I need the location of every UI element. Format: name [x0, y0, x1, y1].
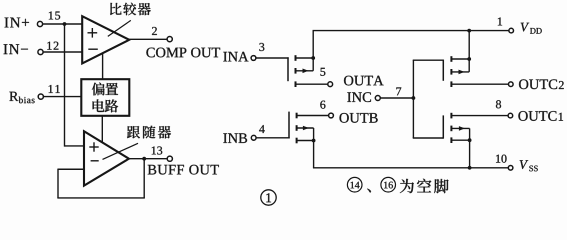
wire INC gate bottom branch	[413, 137, 444, 139]
wire INC gate top branch	[413, 59, 444, 61]
pointer line follower label	[103, 143, 139, 159]
wire INB to gate	[256, 137, 290, 139]
text Rbias label	[9, 92, 18, 101]
pin number 1	[498, 17, 502, 25]
wire Q1 drain to VDD rail	[312, 31, 314, 58]
comparator + input sign	[88, 32, 98, 34]
bias circuit box	[81, 79, 129, 116]
wire Q3 drain to VDD rail	[468, 31, 470, 59]
text OUTA label	[344, 76, 353, 86]
text COMP OUT	[146, 48, 154, 58]
pin number 2	[152, 27, 157, 35]
caption comma	[367, 189, 371, 193]
transistor Q1 gate bar	[287, 57, 289, 81]
pin number 8	[496, 100, 501, 108]
transistor Q1 channel ticks	[295, 55, 297, 61]
transistor Q1 bulk lead with arrow	[296, 70, 314, 72]
text IN+ label	[5, 18, 9, 28]
wire Q2 bulk-source tie	[313, 128, 315, 141]
pin number 10	[496, 155, 500, 163]
transistor Q2 bulk lead with arrow	[297, 127, 314, 129]
node Q1 drain junction	[311, 56, 315, 60]
pin 7 terminal circle INC	[375, 96, 380, 101]
pin 12 terminal circle IN-	[38, 49, 43, 54]
pin 9 terminal circle OUTC2	[509, 82, 514, 87]
label dianlu circuit	[93, 99, 105, 112]
pin 3 terminal circle INA	[251, 56, 256, 61]
text BUFF OUT	[148, 165, 157, 175]
wire Q1 drain-bulk tie	[312, 58, 314, 71]
transistor Q2 source lead	[297, 140, 314, 142]
pin 13 terminal circle	[167, 156, 172, 161]
wire VDD rail	[313, 30, 509, 32]
text INC label	[347, 92, 351, 101]
pin number 13	[152, 146, 156, 154]
wire IN- to comparator	[43, 51, 82, 53]
text INA label	[223, 52, 227, 61]
text OUTC1 label	[518, 111, 527, 121]
caption wei kong jiao empty pins	[400, 179, 414, 193]
wire VSS rail	[313, 167, 508, 169]
wire into follower + input	[65, 145, 85, 147]
pin 6 terminal circle OUTB	[329, 113, 334, 118]
wire feedback up	[57, 169, 59, 198]
transistor Q4 bulk lead with arrow	[451, 127, 469, 129]
transistor Q1 drain lead	[296, 57, 314, 59]
label gensuiqi follower	[127, 126, 140, 138]
pin number 7	[396, 87, 401, 95]
node follower output junction	[142, 157, 146, 161]
circled pin 16	[381, 177, 396, 192]
wire INC to gate bracket	[380, 97, 413, 99]
pin 11 terminal circle Rbias	[38, 94, 43, 99]
transistor Q3 drain lead	[451, 58, 469, 60]
text IN- label	[4, 44, 8, 54]
transistor Q3 source lead to OUTC2	[451, 83, 508, 85]
pin 10 terminal circle VSS	[508, 166, 513, 171]
node VSS rail junction	[468, 166, 472, 170]
wire Q4 bulk-source tie	[469, 128, 471, 140]
pin 1 terminal circle VDD	[509, 28, 514, 33]
pin number 4	[259, 125, 265, 133]
transistor Q4 gate bar	[442, 115, 444, 138]
wire Q3 drain-bulk tie	[468, 59, 470, 72]
node Q2 source junction	[312, 139, 316, 143]
text INB label	[223, 133, 227, 142]
transistor Q4 drain lead to OUTC1	[451, 115, 508, 117]
pin number 15	[49, 11, 53, 19]
label pianzhi bias	[92, 83, 105, 96]
transistor Q3 channel ticks	[450, 56, 452, 62]
circled pin 14	[347, 177, 362, 192]
transistor Q2 channel ticks	[296, 113, 298, 119]
text OUTB label	[339, 113, 348, 123]
transistor Q4 source lead	[451, 139, 469, 141]
pin 15 terminal circle IN+	[37, 21, 42, 26]
wire comparator output	[129, 38, 167, 40]
wire feedback down	[143, 159, 145, 198]
pin number 5	[320, 68, 325, 76]
wire Q4 source to VSS rail	[469, 140, 471, 168]
pin number 11	[49, 85, 53, 93]
transistor Q4 channel ticks	[450, 113, 452, 119]
pin number 6	[320, 101, 325, 109]
wire INC gate bracket vertical	[412, 60, 414, 138]
pin 4 terminal circle INB	[251, 135, 256, 140]
transistor Q1 source lead to OUTA	[296, 83, 328, 85]
transistor Q2 gate bar	[288, 112, 290, 139]
pin 2 terminal circle	[167, 37, 172, 42]
node Q3 drain junction	[467, 57, 471, 61]
text OUTC2 label	[519, 79, 528, 89]
text VSS label	[520, 160, 529, 169]
wire IN+ to comparator	[43, 23, 83, 25]
wire IN+ vertical drop	[64, 24, 66, 147]
text VDD label	[521, 23, 530, 32]
pin number 3	[259, 43, 264, 51]
wire comparator to bias box	[102, 53, 104, 79]
wire Rbias to bias box	[44, 96, 82, 98]
circled figure number 1	[261, 190, 276, 205]
follower + input sign	[89, 146, 98, 148]
op-amp comparator triangle	[82, 16, 129, 63]
wire follower output	[129, 158, 167, 160]
wire bias box to follower	[101, 116, 103, 143]
transistor Q2 drain lead to OUTB	[297, 115, 329, 117]
node VDD rail junction	[467, 29, 471, 33]
pin number 12	[47, 42, 51, 50]
follower - input sign	[91, 160, 99, 162]
node junction IN+ branch	[63, 22, 67, 26]
wire INA to gate	[256, 57, 289, 59]
wire Q2 source to VSS rail	[313, 141, 315, 168]
transistor Q3 gate bar	[442, 60, 444, 81]
wire feedback to - input	[58, 168, 85, 170]
node INC gate junction	[412, 96, 416, 100]
transistor Q3 bulk lead with arrow	[451, 71, 469, 73]
wire feedback bottom	[57, 197, 145, 199]
pin 8 terminal circle OUTC1	[508, 113, 513, 118]
op-amp follower triangle	[84, 131, 129, 185]
label bijiaoqi comparator	[110, 3, 122, 15]
comparator - input sign	[88, 48, 98, 50]
pin 5 terminal circle OUTA	[328, 82, 333, 87]
pointer line comparator label	[108, 20, 131, 36]
node Q4 source junction	[468, 138, 472, 142]
